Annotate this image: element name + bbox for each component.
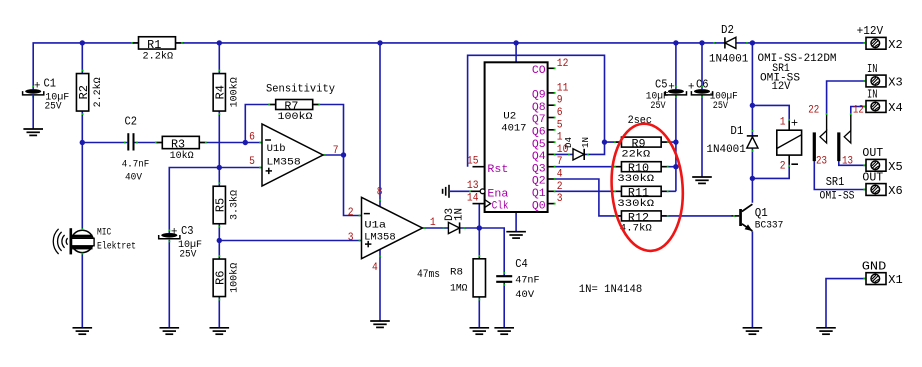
pin Q7 (6) of U2 bbox=[532, 107, 563, 126]
junction R10/R11 right bbox=[673, 164, 678, 169]
pin number 2 U1a bbox=[348, 207, 354, 219]
IC U2 4017 bbox=[485, 62, 548, 212]
ground below Q1 bbox=[743, 328, 763, 334]
label OMI-SS-212DM bbox=[758, 53, 837, 65]
svg-text:D2: D2 bbox=[721, 23, 734, 37]
pin Clk (14) of U2 bbox=[467, 192, 509, 212]
capacitor C6 bbox=[688, 77, 738, 112]
wire R9 row bbox=[605, 141, 676, 143]
svg-text:Ena: Ena bbox=[487, 188, 508, 200]
microphone MIC Elektret bbox=[53, 228, 136, 255]
pin Q5 (1) of U2 bbox=[532, 132, 563, 151]
svg-text:7: 7 bbox=[557, 156, 563, 168]
pin Q3 (7) of U2 bbox=[532, 156, 563, 175]
wire U1a output through D3 bbox=[422, 227, 479, 229]
svg-text:10kΩ: 10kΩ bbox=[170, 150, 194, 162]
resistor R8 bbox=[450, 255, 486, 300]
svg-text:Q9: Q9 bbox=[532, 90, 546, 102]
resistor R11 bbox=[614, 186, 669, 210]
svg-text:Q1: Q1 bbox=[755, 206, 768, 220]
svg-text:R2: R2 bbox=[77, 85, 91, 99]
label OMI-SS bbox=[760, 73, 800, 85]
svg-text:40V: 40V bbox=[125, 173, 142, 184]
capacitor C5 bbox=[646, 77, 687, 112]
svg-text:C6: C6 bbox=[696, 77, 709, 91]
red ellipse highlight bbox=[607, 121, 687, 253]
junction rail/relay branch bbox=[750, 40, 755, 45]
wire relay column with D1 bbox=[751, 43, 753, 203]
wire U1a pin3 row bbox=[219, 240, 361, 242]
svg-text:C1: C1 bbox=[44, 77, 57, 91]
pin number 12 bbox=[853, 105, 864, 117]
svg-text:40V: 40V bbox=[515, 290, 534, 301]
svg-text:+: + bbox=[688, 82, 695, 94]
svg-text:22kΩ: 22kΩ bbox=[621, 149, 650, 161]
wire signal row to U1b pin6 (left of C2) bbox=[82, 142, 127, 144]
svg-text:LM358: LM358 bbox=[364, 232, 396, 244]
resistor R7 bbox=[268, 99, 320, 123]
wire R5 R6 divider column bbox=[218, 168, 220, 328]
wire U1a pin4 to ground bbox=[379, 250, 381, 322]
svg-text:OMI-SS: OMI-SS bbox=[820, 191, 855, 203]
wire X3 to contact 22 bbox=[827, 81, 866, 113]
terminal X4 bbox=[863, 87, 902, 115]
wire node to C4 bbox=[479, 228, 504, 276]
svg-text:CO: CO bbox=[532, 65, 546, 77]
junction rail/C5 bbox=[673, 40, 678, 45]
svg-text:25V: 25V bbox=[713, 101, 728, 112]
svg-text:OUT: OUT bbox=[862, 170, 883, 184]
ground below C3 bbox=[160, 328, 180, 334]
wire R7 feedback left bbox=[245, 105, 276, 143]
svg-text:R5: R5 bbox=[214, 198, 228, 212]
svg-text:U2: U2 bbox=[503, 111, 516, 123]
svg-text:12: 12 bbox=[853, 105, 864, 117]
svg-text:Elektret: Elektret bbox=[97, 241, 136, 253]
svg-text:R8: R8 bbox=[450, 267, 463, 278]
pin Q1 (2) of U2 bbox=[532, 181, 563, 200]
svg-text:25V: 25V bbox=[45, 102, 62, 113]
wire C3 branch / U1b pin5 row bbox=[169, 168, 262, 234]
junction rail/C6 bbox=[699, 40, 704, 45]
wire Q1 to R11 row bbox=[554, 190, 676, 192]
svg-text:12: 12 bbox=[557, 58, 569, 70]
svg-text:+: + bbox=[171, 227, 178, 239]
svg-text:MIC: MIC bbox=[97, 228, 111, 239]
wire Rst loop bbox=[468, 55, 605, 166]
resistor R10 bbox=[614, 162, 669, 186]
junction rail/4017 VDD bbox=[513, 40, 518, 45]
svg-text:5: 5 bbox=[557, 119, 563, 131]
label 12V bbox=[772, 81, 791, 93]
pin number 8 U1a bbox=[377, 186, 383, 198]
wire timing node column bbox=[675, 95, 677, 191]
wire 4017 VDD stub bbox=[515, 43, 517, 62]
svg-text:Q7: Q7 bbox=[532, 114, 546, 126]
junction mic/C2/R2 bbox=[80, 140, 85, 145]
junction C5/R9 bbox=[673, 139, 678, 144]
svg-text:1N4001: 1N4001 bbox=[706, 144, 746, 156]
svg-text:330kΩ: 330kΩ bbox=[617, 173, 654, 185]
svg-text:OMI-SS-212DM: OMI-SS-212DM bbox=[758, 53, 837, 65]
wire node to Clk bbox=[478, 204, 480, 228]
label SR1 contacts bbox=[826, 175, 845, 189]
svg-text:7: 7 bbox=[333, 145, 339, 157]
svg-text:Q2: Q2 bbox=[532, 176, 546, 188]
svg-text:X3: X3 bbox=[888, 76, 902, 90]
svg-text:15: 15 bbox=[467, 156, 479, 168]
svg-text:Sensitivity: Sensitivity bbox=[266, 84, 335, 96]
wire node to R8 and ground bbox=[478, 228, 480, 328]
wire relay coil pin1 bbox=[752, 105, 789, 121]
label OMI-SS contacts bbox=[820, 191, 855, 203]
pin Ena (13) of U2 bbox=[467, 180, 509, 200]
wire X1 to ground bbox=[826, 279, 866, 328]
capacitor C2 bbox=[122, 114, 150, 183]
svg-text:Q6: Q6 bbox=[532, 127, 546, 139]
wire C6 bottom to ground bbox=[701, 95, 703, 177]
svg-text:6: 6 bbox=[249, 132, 255, 144]
capacitor C3 bbox=[159, 224, 202, 260]
svg-text:5: 5 bbox=[249, 156, 255, 168]
svg-text:LM358: LM358 bbox=[266, 157, 300, 169]
svg-text:SR1: SR1 bbox=[826, 175, 845, 189]
svg-text:13: 13 bbox=[842, 156, 853, 168]
resistor R6 bbox=[213, 255, 240, 300]
diode D2 bbox=[709, 23, 749, 66]
wire contact 13 to X5 bbox=[839, 161, 866, 166]
terminal X2 bbox=[857, 24, 903, 52]
pin Q4 (10) of U2 bbox=[532, 144, 568, 163]
svg-text:6: 6 bbox=[557, 107, 563, 119]
svg-text:C3: C3 bbox=[181, 224, 194, 238]
ground below U2 bbox=[506, 232, 526, 238]
svg-text:GND: GND bbox=[862, 259, 887, 273]
wire U1b output to U1a pin2 bbox=[323, 155, 362, 216]
terminal X5 bbox=[862, 146, 902, 174]
svg-text:+: + bbox=[34, 80, 41, 92]
junction rail/R4 bbox=[217, 40, 222, 45]
ground at Ena pin bbox=[443, 185, 471, 198]
ground below C1 bbox=[23, 94, 43, 135]
diode D4 bbox=[563, 137, 591, 160]
svg-text:330kΩ: 330kΩ bbox=[617, 198, 654, 210]
wire U1a pin8 to rail bbox=[379, 43, 381, 207]
svg-text:IN: IN bbox=[867, 87, 878, 101]
label 1N= 1N4148 bbox=[579, 284, 642, 296]
svg-text:R1: R1 bbox=[147, 38, 161, 52]
svg-text:R6: R6 bbox=[214, 271, 228, 285]
transistor Q1 bbox=[732, 204, 784, 231]
svg-text:1N= 1N4148: 1N= 1N4148 bbox=[579, 284, 642, 296]
capacitor C4 bbox=[496, 257, 539, 301]
svg-text:1N4001: 1N4001 bbox=[709, 54, 749, 66]
junction R3/R7 feedback bbox=[243, 140, 248, 145]
relay contact 12/13 bbox=[837, 113, 852, 161]
terminal X1 bbox=[862, 259, 903, 287]
svg-text:1: 1 bbox=[780, 116, 786, 128]
svg-text:11: 11 bbox=[557, 82, 569, 94]
svg-text:9: 9 bbox=[557, 95, 563, 107]
svg-text:13: 13 bbox=[467, 180, 479, 192]
ground below R6 bbox=[210, 328, 230, 334]
svg-text:Q5: Q5 bbox=[532, 139, 546, 151]
pin number 23 bbox=[816, 156, 827, 168]
junction CO-loop/R9/D4 bbox=[602, 139, 607, 144]
svg-text:1N: 1N bbox=[580, 137, 591, 148]
svg-text:IN: IN bbox=[867, 62, 878, 76]
wire C6 top bbox=[701, 43, 703, 89]
svg-text:3: 3 bbox=[557, 193, 563, 205]
junction R5/R6/pin3 bbox=[217, 238, 222, 243]
pin number 7 U1b bbox=[333, 145, 339, 157]
diode D1 bbox=[706, 124, 758, 156]
resistor R9 bbox=[614, 137, 669, 161]
svg-text:4: 4 bbox=[557, 169, 563, 181]
wire C4 bottom to ground bbox=[503, 282, 505, 328]
svg-text:BC337: BC337 bbox=[755, 220, 784, 231]
op-amp U1b bbox=[259, 124, 326, 186]
svg-text:Q4: Q4 bbox=[532, 151, 546, 163]
wire C3 bottom to ground bbox=[168, 240, 170, 328]
svg-text:U1a: U1a bbox=[364, 219, 386, 231]
junction relay coil pin1 branch bbox=[750, 103, 755, 108]
svg-text:X6: X6 bbox=[888, 184, 902, 198]
wire Q1 emitter to ground bbox=[751, 231, 753, 327]
svg-text:X4: X4 bbox=[888, 101, 902, 115]
wire R4 column bbox=[218, 43, 220, 168]
pin Q6 (5) of U2 bbox=[532, 119, 563, 138]
svg-text:2: 2 bbox=[348, 207, 354, 219]
label SR1 name bbox=[772, 63, 790, 75]
wire contact 23 to X6 bbox=[814, 161, 866, 190]
pin number 22 bbox=[808, 105, 819, 117]
svg-text:Q8: Q8 bbox=[532, 102, 546, 114]
svg-text:+: + bbox=[668, 82, 675, 94]
pin number 3 U1a bbox=[348, 232, 354, 244]
label 2sec bbox=[628, 115, 652, 127]
svg-text:22: 22 bbox=[808, 105, 819, 117]
svg-text:4.7nF: 4.7nF bbox=[122, 160, 150, 171]
wire +12V rail bbox=[33, 43, 863, 89]
wire R7 feedback right bbox=[313, 105, 344, 156]
pin Q2 (4) of U2 bbox=[532, 169, 563, 188]
wire X4 to contact 12 bbox=[851, 107, 866, 114]
wire 4017 VSS stub bbox=[515, 212, 517, 232]
pin number 5 U1b bbox=[249, 156, 255, 168]
svg-text:25V: 25V bbox=[179, 249, 196, 260]
svg-text:C5: C5 bbox=[655, 77, 668, 91]
wire timing node C5 top bbox=[675, 43, 677, 89]
junction relay coil pin2/Q1 collector bbox=[750, 176, 755, 181]
op-amp U1a bbox=[359, 197, 426, 258]
junction rail/R2 bbox=[80, 40, 85, 45]
terminal X3 bbox=[863, 62, 902, 90]
svg-text:+12V: +12V bbox=[857, 24, 884, 38]
svg-text:1MΩ: 1MΩ bbox=[450, 283, 468, 294]
svg-text:4017: 4017 bbox=[501, 123, 526, 135]
pin Q9 (11) of U2 bbox=[532, 82, 569, 101]
svg-text:Clk: Clk bbox=[492, 201, 509, 213]
capacitor C1 bbox=[23, 77, 70, 113]
pin number 13 bbox=[842, 156, 853, 168]
ground below C6 bbox=[692, 177, 712, 183]
svg-text:X5: X5 bbox=[888, 160, 902, 174]
svg-text:D4: D4 bbox=[563, 137, 574, 148]
resistor R1 bbox=[131, 37, 183, 63]
ground below X1 bbox=[816, 328, 836, 334]
svg-text:47ms: 47ms bbox=[417, 269, 440, 281]
svg-text:2.2kΩ: 2.2kΩ bbox=[143, 51, 174, 63]
ground below mic bbox=[73, 328, 93, 334]
wire Q4 to D4 bbox=[554, 142, 605, 154]
svg-text:U1b: U1b bbox=[267, 143, 286, 155]
ground below U1a pin4 bbox=[370, 321, 390, 327]
svg-text:X2: X2 bbox=[888, 38, 902, 52]
svg-text:100kΩ: 100kΩ bbox=[229, 77, 241, 107]
pin Rst (15) of U2 bbox=[467, 156, 508, 176]
relay contact 22/23 bbox=[813, 113, 828, 161]
svg-text:Q0: Q0 bbox=[532, 200, 546, 212]
svg-text:100kΩ: 100kΩ bbox=[278, 111, 313, 123]
resistor R2 bbox=[76, 70, 103, 115]
svg-text:C2: C2 bbox=[125, 114, 138, 128]
svg-text:X1: X1 bbox=[888, 273, 902, 287]
pin Q0 (3) of U2 bbox=[532, 193, 563, 212]
svg-text:Q3: Q3 bbox=[532, 163, 546, 175]
svg-text:Rst: Rst bbox=[487, 164, 508, 176]
svg-text:25V: 25V bbox=[650, 101, 665, 112]
svg-text:3: 3 bbox=[348, 232, 354, 244]
svg-text:1: 1 bbox=[430, 217, 436, 229]
svg-text:23: 23 bbox=[816, 156, 827, 168]
svg-text:1N: 1N bbox=[454, 208, 466, 221]
pin CO (12) of U2 bbox=[532, 58, 568, 77]
relay coil SR1 bbox=[777, 116, 802, 172]
svg-text:OUT: OUT bbox=[862, 146, 883, 160]
wire Q3 to R10 row bbox=[554, 166, 676, 168]
wire Q2 to R12 to Q1 base bbox=[554, 179, 732, 216]
pin number 4 U1a bbox=[372, 262, 378, 274]
svg-text:4: 4 bbox=[372, 262, 378, 274]
ground below R8 bbox=[470, 328, 490, 334]
svg-text:2: 2 bbox=[780, 161, 786, 173]
pin number 6 U1b bbox=[249, 132, 255, 144]
junction rail/U1a pin8 bbox=[377, 40, 382, 45]
resistor R4 bbox=[213, 70, 240, 115]
junction U1b output/R7 bbox=[341, 152, 346, 157]
label 47ms bbox=[417, 269, 440, 281]
diode D3 bbox=[443, 208, 466, 234]
pin number 1 U1a bbox=[430, 217, 436, 229]
svg-text:R4: R4 bbox=[214, 85, 228, 99]
label Sensitivity bbox=[266, 84, 335, 96]
svg-text:C4: C4 bbox=[515, 257, 528, 271]
svg-text:2: 2 bbox=[557, 181, 563, 193]
svg-text:Q1: Q1 bbox=[532, 188, 546, 200]
wire relay coil pin2 bbox=[752, 165, 789, 179]
resistor R3 bbox=[155, 136, 207, 162]
svg-text:12V: 12V bbox=[772, 81, 791, 93]
svg-text:D1: D1 bbox=[730, 124, 743, 138]
svg-text:+: + bbox=[791, 117, 798, 131]
svg-text:100kΩ: 100kΩ bbox=[229, 263, 241, 293]
terminal X6 bbox=[862, 170, 902, 198]
resistor R5 bbox=[213, 182, 240, 227]
svg-text:R3: R3 bbox=[171, 137, 185, 151]
ground below C4 bbox=[494, 328, 514, 334]
junction D3/R8/C4/Clk bbox=[477, 225, 482, 230]
svg-text:47nF: 47nF bbox=[515, 276, 539, 287]
wire C2 to R3 to U1b pin6 bbox=[134, 142, 262, 144]
wire R2 column / mic branch bbox=[81, 43, 83, 328]
svg-text:8: 8 bbox=[377, 186, 383, 198]
junction R4/R5/C3/pin5 bbox=[217, 165, 222, 170]
svg-text:2.2kΩ: 2.2kΩ bbox=[92, 77, 104, 107]
svg-text:14: 14 bbox=[467, 192, 479, 204]
svg-text:3.3kΩ: 3.3kΩ bbox=[229, 190, 241, 220]
resistor R12 bbox=[614, 211, 669, 235]
pin Q8 (9) of U2 bbox=[532, 95, 563, 114]
